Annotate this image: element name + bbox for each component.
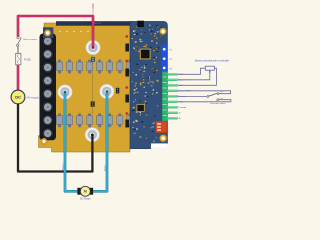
- power pad M+: [58, 85, 72, 99]
- IC U2: [137, 21, 144, 27]
- DC supply source V1: [11, 90, 25, 104]
- DC motor M1: [77, 186, 93, 196]
- label HV supply: [27, 96, 40, 100]
- pin label +5V: [179, 85, 183, 87]
- svg-text:M: M: [84, 190, 87, 194]
- wire supply + (crimson): [18, 16, 94, 49]
- pin label Forward: [179, 106, 187, 109]
- wire pot wiper: [178, 70, 210, 79]
- wire pot GND: [178, 68, 206, 74]
- contact annotation: [220, 92, 223, 101]
- wire supply - (black): [18, 104, 94, 172]
- pin label A+: [179, 117, 182, 120]
- power FET Q16: [127, 113, 133, 127]
- microcontroller U1: [140, 49, 151, 60]
- terminal hole L5: [42, 88, 54, 100]
- power FET Q6: [107, 60, 113, 74]
- potentiometer R1: [205, 66, 214, 72]
- label main contactor: [23, 38, 37, 41]
- capacitor C2: [91, 102, 95, 107]
- power FET Q3: [76, 60, 82, 74]
- wire battery feed (crimson, faded continuation): [92, 4, 94, 14]
- mounting hole logic top: [160, 28, 167, 35]
- terminal stub pin 3: [167, 84, 178, 86]
- pin label P2: [169, 59, 172, 61]
- terminal hole L1: [42, 35, 54, 47]
- power FET Q14: [107, 113, 113, 127]
- power FET Q9: [56, 113, 62, 127]
- terminal hole L6: [42, 101, 54, 113]
- terminal stub pin 1: [167, 73, 178, 75]
- terminal stub pin 6: [167, 101, 178, 103]
- svg-text:FUSE: FUSE: [24, 59, 31, 62]
- pin label B+: [179, 113, 182, 115]
- logic daughter board (navy PCB): [130, 21, 168, 148]
- power pad B+: [86, 40, 100, 54]
- wire switch reverse: [178, 91, 231, 94]
- terminal hole L2: [42, 48, 54, 60]
- left screw-terminal strip: [40, 34, 57, 141]
- power FET Q7: [117, 60, 123, 74]
- signal terminal block J1: [162, 72, 167, 122]
- power FET Q13: [97, 113, 103, 127]
- power pad M-: [100, 84, 114, 98]
- pin label Speed: [179, 80, 186, 82]
- terminal hole L7: [42, 114, 54, 126]
- mounting hole logic bottom: [160, 135, 167, 142]
- svg-text:Motor +: Motor +: [62, 162, 65, 170]
- pin label P1: [169, 50, 172, 52]
- power FET Q10: [66, 113, 72, 127]
- smd component field: [132, 25, 163, 142]
- power FET Q5: [97, 60, 103, 74]
- motor controller power board (yellow PCB): [39, 23, 131, 152]
- pin label P3: [169, 68, 172, 70]
- power FET Q15: [117, 113, 123, 127]
- svg-text:Motor -: Motor -: [103, 164, 106, 171]
- svg-text:HV supply: HV supply: [27, 96, 40, 100]
- svg-text:Direction switch: Direction switch: [210, 102, 226, 105]
- power FET Q8: [127, 60, 133, 74]
- pin label Brake PWM in: [179, 90, 193, 93]
- power FET Q2: [66, 60, 72, 74]
- power FET Q12: [87, 113, 93, 127]
- terminal stub pin 2: [167, 79, 178, 81]
- board edge highlight: [151, 143, 167, 147]
- IC U3: [137, 104, 145, 111]
- label direction switch: [210, 102, 226, 105]
- via row: [59, 31, 88, 32]
- terminal stub pin 4: [167, 90, 178, 92]
- wire switch forward: [178, 100, 231, 102]
- pin label GND: [179, 102, 184, 104]
- wire motor - (teal): [93, 90, 109, 191]
- power pad B-: [85, 128, 99, 142]
- svg-text:Speed potentiometer or throttl: Speed potentiometer or throttle: [195, 59, 230, 62]
- svg-text:DC Motor: DC Motor: [80, 197, 91, 200]
- mounting hole bottom-left: [41, 138, 47, 144]
- terminal hole L3: [42, 62, 54, 74]
- fuse F1: [16, 53, 21, 64]
- wire fuse to supply: [17, 65, 20, 91]
- capacitor C3: [116, 88, 119, 94]
- terminal stub pin 9: [167, 117, 178, 119]
- wire pot +5V: [178, 68, 217, 85]
- terminal stub pin 5: [167, 95, 178, 97]
- connector column parts: [125, 35, 129, 127]
- wire contactor-fuse: [17, 46, 19, 53]
- svg-text:Main contactor: Main contactor: [23, 38, 37, 41]
- main contactor S1: [16, 37, 21, 47]
- terminal hole L8: [42, 128, 54, 140]
- power FET Q1: [56, 60, 62, 74]
- terminal stub pin 8: [167, 112, 178, 114]
- direction switch S3: [207, 93, 219, 101]
- mounting tab top-left: [43, 27, 53, 38]
- label speed potentiometer: [195, 59, 230, 62]
- capacitor C1: [91, 57, 95, 61]
- power FET Q11: [76, 113, 82, 127]
- label motor -: [103, 164, 106, 171]
- label motor +: [62, 162, 65, 170]
- pin label Reverse: [179, 95, 188, 98]
- fuse rating label on heatsink: [93, 22, 101, 25]
- pin label GND: [179, 74, 184, 76]
- svg-text:Fwd: Fwd: [220, 98, 223, 100]
- heatsink bar along top edge: [56, 21, 132, 26]
- svg-text:Rev: Rev: [220, 92, 223, 94]
- DIP switch S2: [156, 121, 167, 133]
- wire motor + (teal): [64, 91, 78, 192]
- mounting hole top-left: [44, 30, 51, 37]
- silkscreen trace: [92, 52, 94, 114]
- wire switch common: [178, 96, 207, 98]
- svg-text:DC: DC: [15, 95, 21, 100]
- terminal stub pin 7: [167, 106, 178, 108]
- label fuse: [24, 59, 31, 62]
- terminal hole L4: [42, 75, 54, 87]
- power FET Q4: [87, 60, 93, 74]
- programming header P1-P3: [161, 45, 167, 72]
- label DC motor: [80, 197, 91, 200]
- svg-text:Forward: Forward: [179, 106, 187, 109]
